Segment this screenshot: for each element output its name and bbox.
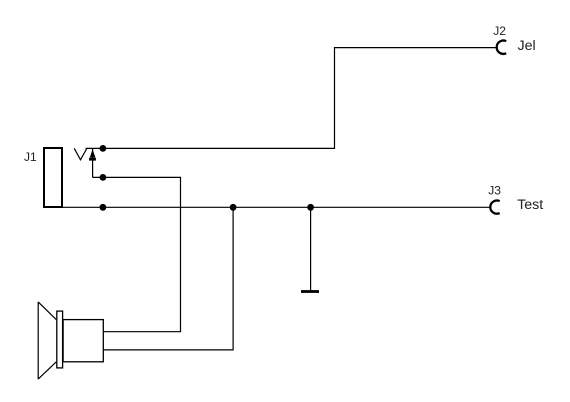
wire row2 to speaker top — [93, 177, 181, 331]
ground — [301, 290, 319, 293]
wire row1 to J2 — [86, 48, 496, 149]
svg-text:J1: J1 — [24, 150, 37, 164]
svg-text:J2: J2 — [493, 24, 506, 38]
connector J2 — [497, 41, 507, 54]
speaker LS1 diaphragm plate — [57, 311, 63, 368]
wire to speaker bottom — [104, 207, 234, 350]
svg-text:Test: Test — [517, 197, 543, 213]
J1 switch contact V — [74, 148, 87, 160]
wire row3 main net — [63, 206, 490, 208]
speaker LS1 cone — [38, 302, 56, 379]
J1 switch arrow — [89, 149, 96, 160]
wire switch stem — [92, 149, 94, 177]
connector J3 — [490, 201, 499, 214]
wire ground stem — [310, 207, 312, 290]
junction dot node row1 — [100, 145, 107, 152]
speaker LS1 magnet body — [63, 320, 103, 362]
junction dot node row3 left — [100, 204, 107, 211]
connector J1 body — [44, 148, 62, 207]
svg-text:J3: J3 — [488, 184, 501, 198]
junction dot node ground — [307, 204, 314, 211]
svg-text:Jel: Jel — [518, 38, 536, 54]
junction dot node row2 — [100, 174, 107, 181]
junction dot node speaker — [230, 204, 237, 211]
